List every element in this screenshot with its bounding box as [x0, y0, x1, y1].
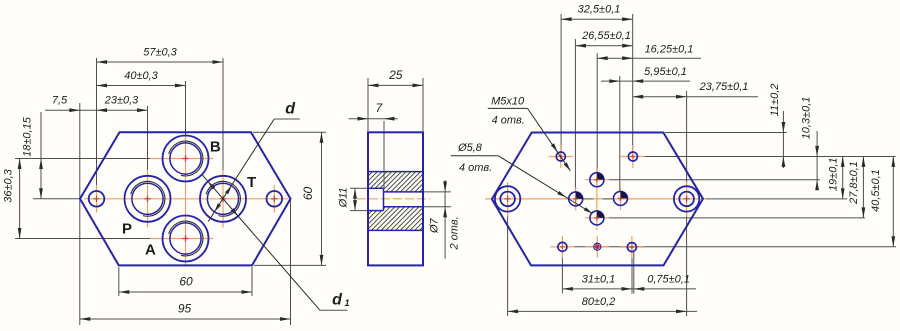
svg-text:Ø11: Ø11 [338, 187, 350, 208]
svg-text:19±0,1: 19±0,1 [828, 158, 840, 192]
svg-text:25: 25 [388, 68, 403, 82]
svg-text:40,5±0,1: 40,5±0,1 [870, 169, 882, 212]
svg-text:T: T [247, 174, 256, 191]
svg-text:32,5±0,1: 32,5±0,1 [578, 4, 621, 16]
svg-text:95: 95 [178, 302, 192, 316]
svg-text:16,25±0,1: 16,25±0,1 [645, 44, 694, 56]
svg-text:0,75±0,1: 0,75±0,1 [647, 273, 690, 285]
svg-text:Ø7: Ø7 [429, 217, 441, 234]
svg-text:4 отв.: 4 отв. [492, 115, 525, 127]
svg-text:23±0,3: 23±0,3 [104, 95, 139, 107]
svg-text:11±0,2: 11±0,2 [769, 84, 781, 117]
svg-text:60: 60 [301, 187, 315, 201]
svg-text:23,75±0,1: 23,75±0,1 [699, 81, 749, 93]
svg-text:2 отв.: 2 отв. [449, 216, 461, 250]
svg-text:7,5: 7,5 [52, 95, 68, 107]
svg-text:A: A [145, 241, 156, 258]
svg-text:40±0,3: 40±0,3 [124, 70, 158, 82]
svg-text:36±0,3: 36±0,3 [3, 168, 15, 202]
svg-text:31±0,1: 31±0,1 [582, 273, 616, 285]
svg-text:57±0,3: 57±0,3 [143, 47, 177, 59]
svg-text:4 отв.: 4 отв. [459, 162, 492, 174]
svg-text:d: d [332, 292, 343, 309]
svg-text:P: P [122, 220, 132, 237]
svg-text:80±0,2: 80±0,2 [582, 296, 616, 308]
svg-text:1: 1 [344, 298, 349, 308]
svg-text:Ø5,8: Ø5,8 [457, 142, 483, 154]
svg-text:B: B [210, 139, 221, 156]
svg-text:27,8±0,1: 27,8±0,1 [848, 161, 860, 205]
svg-text:d: d [285, 101, 296, 118]
svg-text:60: 60 [179, 275, 193, 289]
svg-text:5,95±0,1: 5,95±0,1 [644, 66, 687, 78]
svg-text:18±0,15: 18±0,15 [22, 116, 34, 157]
svg-text:26,55±0,1: 26,55±0,1 [581, 30, 631, 42]
svg-text:M5x10: M5x10 [491, 96, 525, 108]
svg-text:10,3±0,1: 10,3±0,1 [801, 97, 813, 140]
